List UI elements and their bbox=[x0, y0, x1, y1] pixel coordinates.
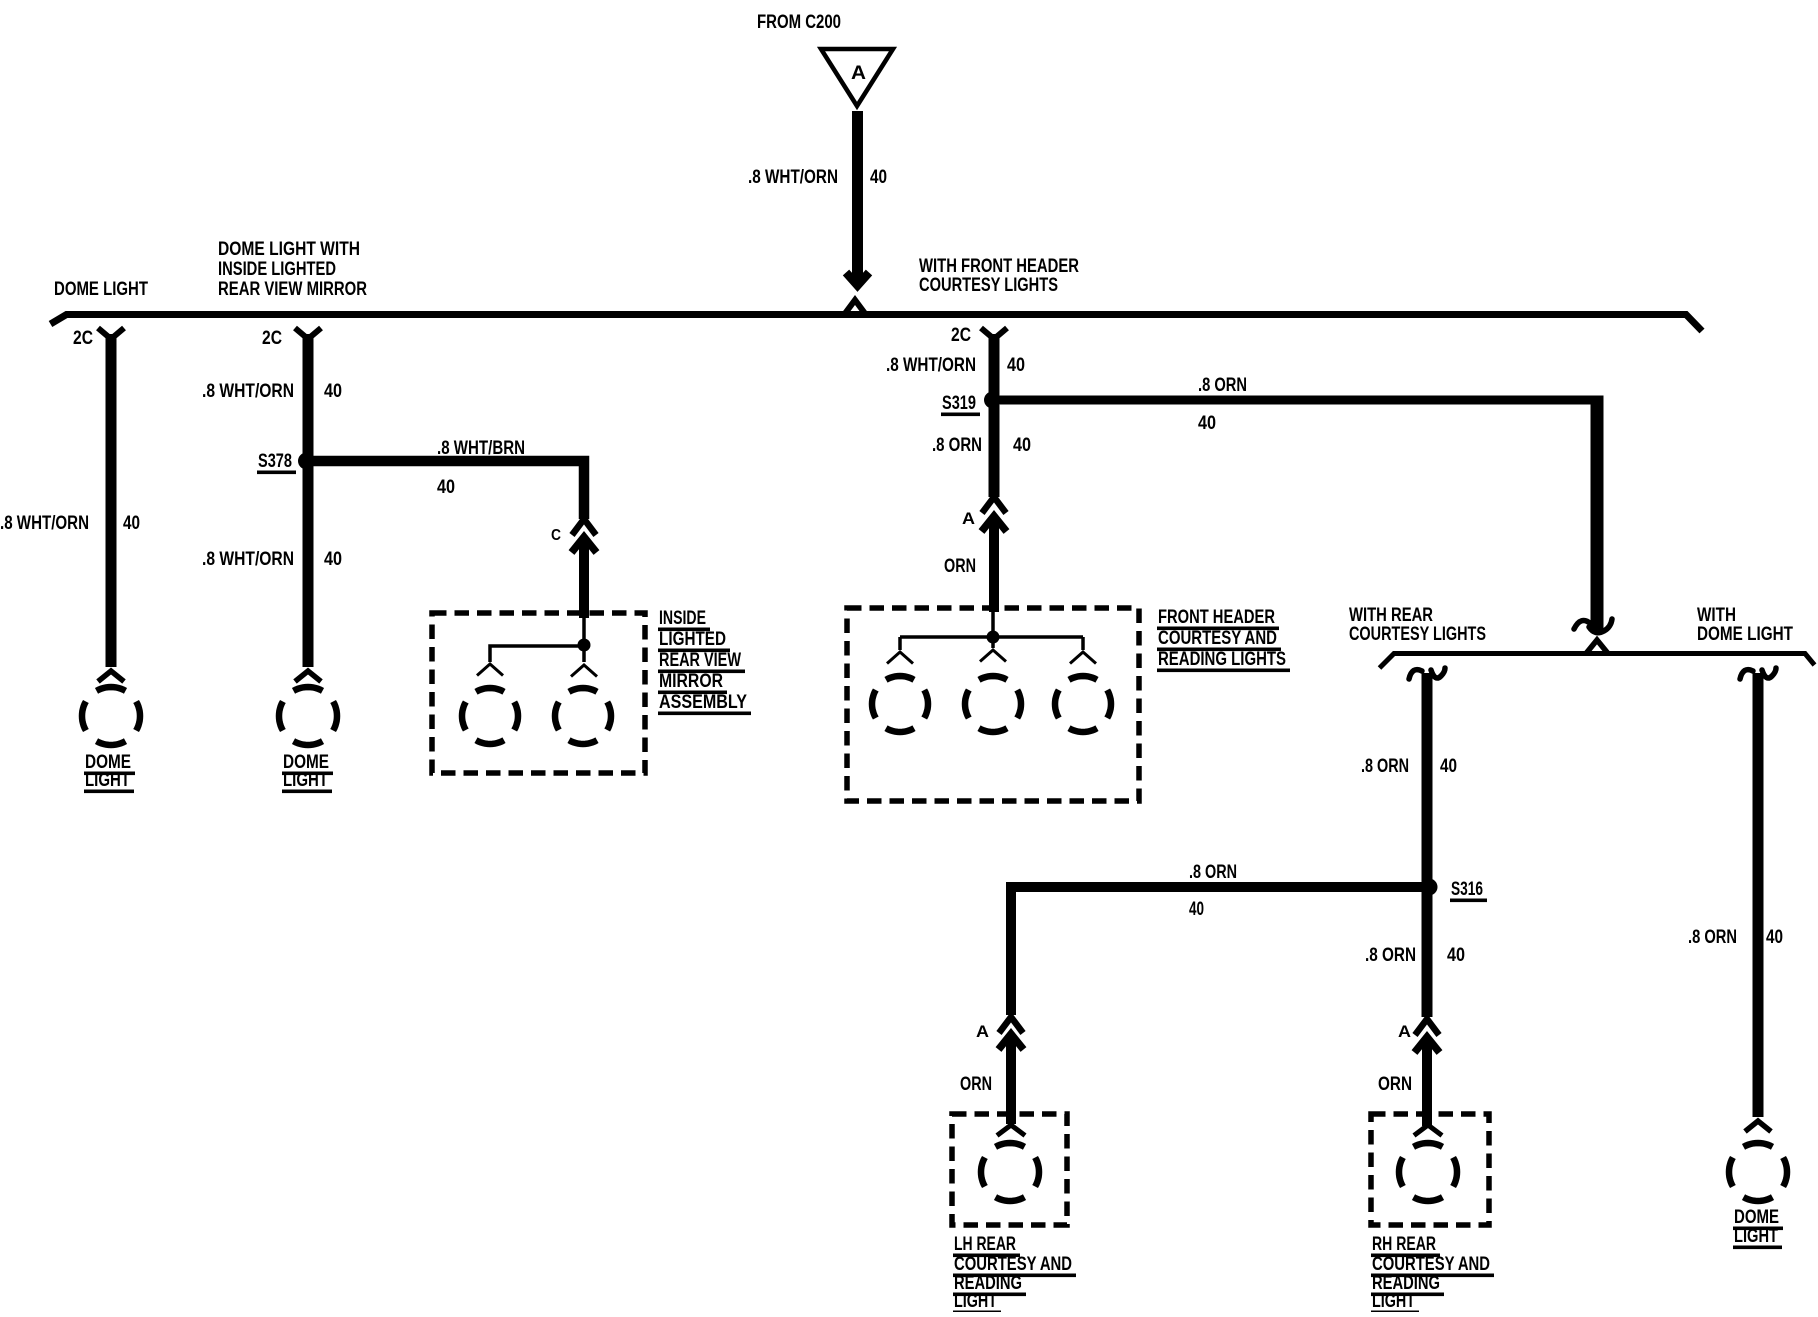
wire .8 ORN 40 dome light right bbox=[1753, 673, 1764, 1117]
label .8 ORN bbox=[1189, 862, 1237, 883]
svg-text:COURTESY AND: COURTESY AND bbox=[954, 1254, 1072, 1275]
label 40 bbox=[437, 477, 455, 498]
label .8 WHT/ORN bbox=[0, 513, 89, 534]
svg-text:ORN: ORN bbox=[944, 556, 976, 577]
label 40 bbox=[1447, 945, 1465, 966]
header lamp middle bbox=[965, 650, 1021, 732]
label WITH FRONT HEADER COURTESY LIGHTS bbox=[919, 256, 1079, 296]
connector A female half LH rear bbox=[999, 1017, 1023, 1033]
wire .8 ORN 40 to LH rear bbox=[1011, 887, 1423, 1015]
wire inside mirror box bbox=[490, 615, 584, 662]
svg-text:40: 40 bbox=[1007, 355, 1025, 376]
label 40 bbox=[1440, 756, 1457, 777]
svg-text:40: 40 bbox=[123, 513, 140, 534]
lower option bus wire bbox=[1380, 640, 1815, 668]
label A bbox=[1398, 1022, 1411, 1041]
label DOME LIGHT bbox=[282, 752, 333, 793]
label .8 ORN bbox=[1688, 927, 1737, 948]
svg-text:A: A bbox=[1398, 1022, 1411, 1041]
svg-text:LIGHT: LIGHT bbox=[954, 1291, 997, 1312]
label .8 WHT/BRN bbox=[437, 438, 525, 459]
svg-text:40: 40 bbox=[1447, 945, 1465, 966]
label WITH DOME LIGHT bbox=[1697, 605, 1793, 645]
label LH REAR COURTESY AND READING LIGHT bbox=[953, 1234, 1076, 1314]
RH rear lamp bbox=[1399, 1125, 1457, 1201]
svg-text:FRONT HEADER: FRONT HEADER bbox=[1158, 607, 1275, 628]
label .8 WHT/ORN bbox=[202, 381, 294, 402]
svg-text:40: 40 bbox=[437, 477, 455, 498]
svg-text:COURTESY LIGHTS: COURTESY LIGHTS bbox=[919, 275, 1058, 296]
connector 2C mirror branch bbox=[295, 328, 321, 339]
label 40 bbox=[1189, 899, 1204, 920]
wire .8 WHT/ORN 40 feed with down arrow bbox=[846, 111, 869, 286]
splice S378 bbox=[298, 453, 315, 470]
junction dot header box bbox=[987, 631, 1000, 644]
label ORN bbox=[944, 556, 976, 577]
connector A male half LH rear bbox=[999, 1034, 1024, 1124]
label .8 WHT/ORN bbox=[886, 355, 976, 376]
svg-text:DOME: DOME bbox=[1734, 1207, 1779, 1228]
svg-text:S316: S316 bbox=[1451, 879, 1483, 900]
mirror lamp right bbox=[555, 665, 611, 744]
wire .8 ORN 40 rear vertical bbox=[1422, 673, 1433, 1017]
label RH REAR COURTESY AND READING LIGHT bbox=[1371, 1234, 1494, 1314]
wire .8 WHT/ORN 40 to S319 bbox=[989, 334, 1000, 400]
connector dome light branch bbox=[1740, 668, 1776, 679]
label 40 bbox=[324, 549, 342, 570]
mirror lamp left bbox=[462, 664, 518, 744]
svg-text:A: A bbox=[976, 1022, 989, 1041]
connector C male half bbox=[572, 537, 597, 618]
label S378 bbox=[257, 451, 296, 474]
junction dot mirror box bbox=[578, 639, 591, 652]
wire .8 WHT/BRN 40 to mirror bbox=[313, 461, 584, 519]
label 40 bbox=[123, 513, 140, 534]
svg-text:DOME LIGHT: DOME LIGHT bbox=[1697, 624, 1793, 645]
svg-text:A: A bbox=[851, 63, 866, 84]
svg-text:LIGHT: LIGHT bbox=[1734, 1226, 1778, 1247]
label FROM C200 bbox=[757, 12, 841, 33]
svg-text:40: 40 bbox=[1440, 756, 1457, 777]
svg-text:40: 40 bbox=[324, 381, 342, 402]
svg-text:.8 WHT/ORN: .8 WHT/ORN bbox=[202, 381, 294, 402]
svg-text:LIGHT: LIGHT bbox=[1372, 1291, 1415, 1312]
svg-text:.8 ORN: .8 ORN bbox=[1688, 927, 1737, 948]
label INSIDE LIGHTED REAR VIEW MIRROR ASSEMBLY bbox=[658, 608, 751, 715]
wire break squiggle bbox=[1574, 619, 1612, 633]
svg-text:LH REAR: LH REAR bbox=[954, 1234, 1016, 1255]
label 40 bbox=[1198, 413, 1216, 434]
svg-text:REAR VIEW: REAR VIEW bbox=[659, 650, 741, 671]
label FRONT HEADER COURTESY AND READING LIGHTS bbox=[1157, 607, 1290, 672]
svg-text:ORN: ORN bbox=[1378, 1074, 1412, 1095]
svg-text:LIGHT: LIGHT bbox=[85, 770, 130, 791]
wire .8 WHT/ORN 40 lower segment bbox=[303, 461, 314, 667]
label ORN bbox=[1378, 1074, 1412, 1095]
label 2C bbox=[73, 328, 93, 349]
label ORN bbox=[960, 1074, 992, 1095]
svg-text:ORN: ORN bbox=[960, 1074, 992, 1095]
svg-text:40: 40 bbox=[1198, 413, 1216, 434]
label 40 bbox=[1013, 435, 1031, 456]
label 40 bbox=[1007, 355, 1025, 376]
svg-text:40: 40 bbox=[870, 167, 887, 188]
svg-text:C: C bbox=[551, 527, 561, 544]
svg-text:40: 40 bbox=[1189, 899, 1204, 920]
label DOME LIGHT bbox=[84, 752, 135, 793]
svg-text:COURTESY AND: COURTESY AND bbox=[1372, 1254, 1490, 1275]
svg-text:40: 40 bbox=[1013, 435, 1031, 456]
header lamp left bbox=[872, 652, 928, 732]
wire .8 ORN 40 S319 down bbox=[989, 400, 1000, 497]
svg-text:A: A bbox=[962, 509, 975, 528]
lamp dome light 2 bbox=[279, 671, 337, 745]
lamp dome light right bbox=[1729, 1121, 1787, 1201]
svg-text:.8 ORN: .8 ORN bbox=[1189, 862, 1237, 883]
inside lighted rear view mirror assembly box bbox=[432, 613, 645, 773]
splice S319 bbox=[984, 392, 1001, 409]
svg-text:FROM C200: FROM C200 bbox=[757, 12, 841, 33]
svg-text:LIGHTED: LIGHTED bbox=[659, 629, 726, 650]
label A bbox=[976, 1022, 989, 1041]
svg-text:COURTESY AND: COURTESY AND bbox=[1158, 628, 1277, 649]
wire .8 WHT/ORN 40 upper segment bbox=[303, 334, 314, 461]
header lamp right bbox=[1055, 652, 1111, 732]
svg-text:.8 ORN: .8 ORN bbox=[1365, 945, 1416, 966]
label .8 WHT/ORN bbox=[202, 549, 294, 570]
label 40 bbox=[324, 381, 342, 402]
splice S316 bbox=[1421, 879, 1438, 896]
svg-text:WITH: WITH bbox=[1697, 605, 1736, 626]
lamp dome light bbox=[82, 671, 140, 745]
top bus wire bbox=[51, 300, 1703, 331]
label DOME LIGHT (branch heading) bbox=[54, 279, 148, 300]
label 40 bbox=[870, 167, 887, 188]
connector A male half RH rear bbox=[1415, 1037, 1440, 1126]
svg-text:DOME LIGHT: DOME LIGHT bbox=[54, 279, 148, 300]
svg-text:INSIDE LIGHTED: INSIDE LIGHTED bbox=[218, 259, 336, 280]
svg-text:.8 ORN: .8 ORN bbox=[1198, 375, 1247, 396]
svg-text:.8 WHT/ORN: .8 WHT/ORN bbox=[0, 513, 89, 534]
label .8 ORN bbox=[932, 435, 982, 456]
svg-text:2C: 2C bbox=[951, 325, 971, 346]
label .8 WHT/ORN bbox=[748, 167, 838, 188]
svg-text:.8 ORN: .8 ORN bbox=[932, 435, 982, 456]
svg-text:WITH REAR: WITH REAR bbox=[1349, 605, 1433, 626]
svg-text:ASSEMBLY: ASSEMBLY bbox=[659, 692, 747, 713]
wires inside front header box bbox=[900, 610, 1083, 650]
label DOME LIGHT bbox=[1733, 1207, 1783, 1249]
label S319 bbox=[941, 393, 980, 416]
label WITH REAR COURTESY LIGHTS bbox=[1349, 605, 1486, 645]
connector C female half bbox=[572, 519, 596, 535]
svg-text:DOME LIGHT WITH: DOME LIGHT WITH bbox=[218, 239, 360, 260]
label C bbox=[551, 527, 561, 544]
svg-text:REAR VIEW MIRROR: REAR VIEW MIRROR bbox=[218, 279, 367, 300]
LH rear lamp bbox=[981, 1125, 1039, 1201]
svg-text:INSIDE: INSIDE bbox=[659, 608, 706, 629]
svg-text:40: 40 bbox=[1766, 927, 1783, 948]
wire .8 WHT/ORN 40 dome light bbox=[106, 334, 117, 667]
connector A male half front header bbox=[982, 516, 1007, 612]
LH rear courtesy and reading light box bbox=[952, 1114, 1067, 1225]
RH rear courtesy and reading light box bbox=[1371, 1114, 1489, 1225]
svg-text:WITH FRONT HEADER: WITH FRONT HEADER bbox=[919, 256, 1079, 277]
svg-text:MIRROR: MIRROR bbox=[659, 671, 723, 692]
svg-text:COURTESY LIGHTS: COURTESY LIGHTS bbox=[1349, 624, 1486, 645]
connector A from C200 (triangle) bbox=[821, 49, 893, 106]
label A bbox=[962, 509, 975, 528]
svg-text:2C: 2C bbox=[262, 328, 282, 349]
connector 2C front header branch bbox=[981, 328, 1007, 339]
connector rear courtesy branch bbox=[1409, 668, 1445, 679]
svg-text:RH REAR: RH REAR bbox=[1372, 1234, 1436, 1255]
label S316 bbox=[1450, 879, 1487, 902]
wire .8 ORN 40 to rear bbox=[1000, 396, 1604, 631]
label .8 ORN bbox=[1365, 945, 1416, 966]
front header courtesy and reading lights box bbox=[847, 608, 1139, 801]
connector A female half RH rear bbox=[1415, 1019, 1439, 1035]
connector A female half front header bbox=[982, 497, 1006, 513]
label .8 ORN bbox=[1198, 375, 1247, 396]
svg-text:40: 40 bbox=[324, 549, 342, 570]
svg-text:.8 WHT/BRN: .8 WHT/BRN bbox=[437, 438, 525, 459]
svg-text:LIGHT: LIGHT bbox=[283, 770, 328, 791]
label 40 bbox=[1766, 927, 1783, 948]
label 2C bbox=[951, 325, 971, 346]
svg-text:S319: S319 bbox=[942, 393, 976, 414]
connector 2C dome light branch bbox=[98, 328, 124, 339]
svg-text:.8 WHT/ORN: .8 WHT/ORN bbox=[202, 549, 294, 570]
svg-text:S378: S378 bbox=[258, 451, 292, 472]
svg-text:.8 WHT/ORN: .8 WHT/ORN bbox=[748, 167, 838, 188]
svg-text:READING LIGHTS: READING LIGHTS bbox=[1158, 649, 1286, 670]
label DOME LIGHT WITH INSIDE LIGHTED REAR VIEW MIRROR bbox=[218, 239, 367, 300]
svg-text:2C: 2C bbox=[73, 328, 93, 349]
label 2C bbox=[262, 328, 282, 349]
label .8 ORN bbox=[1361, 756, 1409, 777]
svg-text:.8 WHT/ORN: .8 WHT/ORN bbox=[886, 355, 976, 376]
svg-text:.8 ORN: .8 ORN bbox=[1361, 756, 1409, 777]
